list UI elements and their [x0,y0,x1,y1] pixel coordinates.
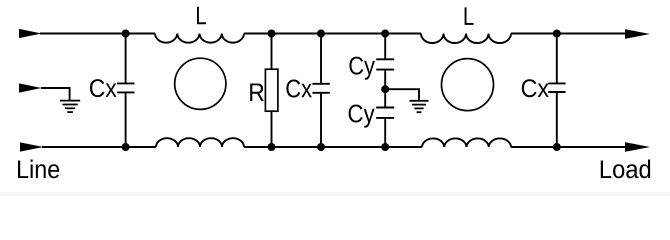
node: R bottom [268,143,276,151]
label Cx1 [90,79,117,97]
resistor R [265,34,278,148]
node: Cy midpoint [381,85,389,93]
label Load [601,160,650,179]
input arrow bottom (Line neutral) [20,142,44,151]
input arrow middle (earth lead) [19,83,42,92]
wire top: choke L1 to choke L2 [244,33,421,35]
inductor L1 top winding [155,34,244,43]
node: Cx1 bottom [122,143,130,151]
ground (input earth) [60,101,80,113]
node: Cx2 bottom [317,143,325,151]
output arrow bottom (Load) [625,142,650,152]
inductor L2 top winding [421,34,511,44]
label Cy2 [349,105,375,128]
wire top: arrow to choke L1 [40,33,155,35]
input arrow top (Line phase) [19,29,42,38]
label L2 [465,7,474,25]
wire: Cy midpoint to ground [385,89,419,101]
wire top: choke L2 to output arrow [511,33,630,35]
node: Cx2 top [317,30,325,38]
node: Cx3 bottom [553,143,561,151]
capacitor Cx3 [548,34,565,148]
label L1 [197,7,206,25]
wire bottom: choke L2 to output arrow [511,146,630,148]
label Cx2 [286,80,312,98]
output arrow top (Load) [625,29,650,39]
capacitor Cx2 [312,34,329,148]
wire bottom: arrow to choke L1 [42,146,156,148]
wire bottom: choke L1 to choke L2 [244,146,422,148]
node: Cx1 top [122,30,130,38]
capacitor Cy1 (upper) [376,34,394,90]
label Line [18,160,59,179]
capacitor Cy2 (lower) [376,89,394,147]
node: Cy top [381,30,389,38]
node: Cx3 top [553,30,561,38]
node: R top [268,30,276,38]
label R [250,84,264,102]
inductor L1 bottom winding [156,138,244,147]
choke L2 core circle [442,59,494,111]
inductor L2 bottom winding [422,138,511,147]
wire: earth lead to ground [41,88,70,101]
choke L1 core circle [175,58,226,109]
label Cy1 [349,57,375,80]
label Cx3 [522,79,549,97]
node: Cy bottom [381,143,389,151]
ground (Cy midpoint) [410,101,429,112]
capacitor Cx1 [117,34,134,148]
